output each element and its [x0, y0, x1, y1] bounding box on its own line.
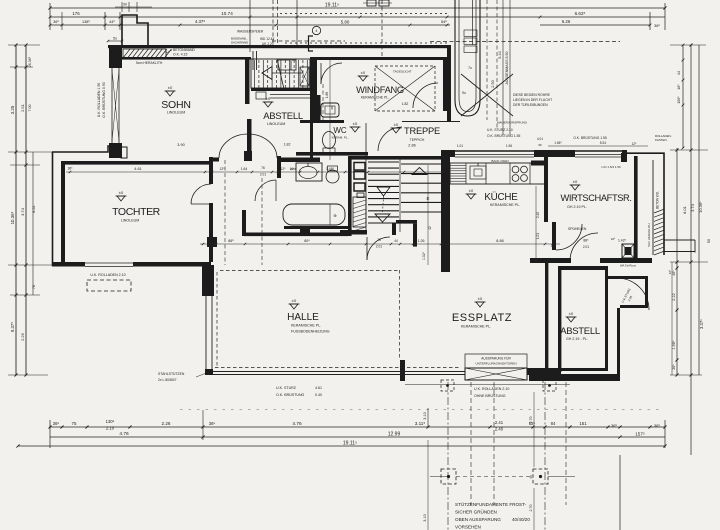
door arc abstell-top	[321, 63, 342, 84]
svg-text:157⁵: 157⁵	[635, 432, 645, 437]
dim verticals aussenmass	[502, 0, 504, 135]
wall windfang top	[313, 57, 448, 60]
svg-text:12⁵: 12⁵	[281, 167, 287, 171]
svg-text:36⁵: 36⁵	[611, 423, 617, 428]
svg-text:SOHN: SOHN	[161, 99, 191, 111]
svg-text:KERAMISCHE PL.: KERAMISCHE PL.	[291, 324, 321, 328]
svg-text:5.44: 5.44	[498, 51, 502, 58]
wall tochter top outer corner	[52, 146, 116, 152]
svg-text:KERAMISCHE PL.: KERAMISCHE PL.	[490, 203, 520, 207]
svg-text:1.26: 1.26	[418, 239, 425, 243]
svg-text:LIEGEN IN DER FLUCHT: LIEGEN IN DER FLUCHT	[513, 98, 552, 102]
right dimension line b	[682, 45, 684, 148]
window sohn left	[111, 68, 113, 143]
svg-text:2.51: 2.51	[20, 103, 25, 112]
svg-text:4: 4	[316, 29, 318, 33]
svg-text:5.80: 5.80	[341, 20, 350, 25]
svg-text:46⁵: 46⁵	[668, 269, 672, 274]
left dimension line inner	[25, 45, 27, 375]
wall abstell bottom band	[529, 374, 620, 381]
svg-text:±0: ±0	[353, 121, 358, 126]
svg-text:±0: ±0	[469, 188, 474, 193]
wall essplatz right band	[545, 262, 548, 376]
svg-text:AUSSENMASS 8.50: AUSSENMASS 8.50	[505, 52, 509, 85]
svg-text:40/40/20: 40/40/20	[512, 517, 530, 522]
svg-text:TREPPE: TREPPE	[404, 126, 440, 136]
radiator abstell-top	[300, 67, 309, 86]
svg-text:HALLE: HALLE	[287, 312, 319, 323]
svg-text:U.K. STURZ 2.10: U.K. STURZ 2.10	[487, 128, 513, 132]
svg-text:4.61: 4.61	[134, 167, 141, 171]
dashed gallery line halle	[220, 270, 399, 272]
wall kueche/wirtschaft divider	[544, 150, 548, 222]
svg-text:19.11⁵: 19.11⁵	[325, 3, 339, 9]
understair arrow	[272, 72, 303, 74]
svg-text:4.76: 4.76	[119, 431, 129, 437]
svg-text:KERAMISCHE PL.: KERAMISCHE PL.	[461, 325, 491, 329]
svg-text:76: 76	[261, 166, 265, 170]
svg-text:2x L 80/80/7: 2x L 80/80/7	[158, 378, 177, 382]
svg-text:3.90: 3.90	[177, 143, 184, 147]
vertical dim x653 essplatz right	[671, 262, 673, 375]
svg-text:10.36⁵: 10.36⁵	[10, 211, 15, 224]
svg-text:2.86: 2.86	[408, 144, 415, 148]
svg-text:3.74: 3.74	[20, 207, 25, 216]
wall tochter right upper	[209, 157, 213, 184]
door leaf essplatz-wirtschaft	[552, 222, 556, 250]
svg-text:76: 76	[32, 285, 36, 289]
svg-text:2.41: 2.41	[495, 420, 504, 425]
entrance tongue outer	[455, 0, 480, 116]
bad wc bowl	[326, 170, 339, 183]
svg-text:±0: ±0	[168, 85, 173, 90]
svg-text:AUSSPARUNG FÜR: AUSSPARUNG FÜR	[481, 357, 511, 361]
svg-text:151: 151	[579, 421, 587, 426]
top center vent boxes	[367, 0, 376, 6]
svg-text:±0: ±0	[478, 296, 483, 301]
svg-text:1.88: 1.88	[325, 92, 329, 98]
svg-text:0.40: 0.40	[315, 393, 322, 397]
svg-text:U.D 1.5/4 1.56: U.D 1.5/4 1.56	[601, 165, 621, 169]
svg-text:LINOLEUM: LINOLEUM	[167, 111, 185, 115]
bottom extension verticals	[202, 410, 204, 440]
svg-text:8.86: 8.86	[496, 239, 503, 243]
kitchen hood marks	[531, 161, 545, 166]
svg-text:7.00: 7.00	[28, 105, 32, 112]
kitchen stove	[512, 166, 519, 173]
wall corridor y120	[300, 120, 344, 123]
svg-text:100⁵: 100⁵	[677, 96, 681, 104]
svg-text:80⁴: 80⁴	[304, 239, 310, 243]
door arc hall	[367, 237, 390, 260]
svg-text:OHNE BRÜSTUNG: OHNE BRÜSTUNG	[474, 394, 506, 398]
wall sohn top	[122, 57, 251, 60]
right tick extensions	[670, 44, 706, 46]
kitchen fridge hatch	[450, 165, 466, 167]
foundation square a	[441, 469, 456, 484]
svg-text:WD 12.43: WD 12.43	[260, 37, 274, 41]
svg-text:5cm HERAKLITH: 5cm HERAKLITH	[647, 223, 651, 246]
hatched pillar right	[654, 209, 665, 213]
svg-text:2.01: 2.01	[260, 173, 266, 177]
wall stairs bottom + door jambs	[340, 230, 367, 235]
foundation dim line y384	[405, 384, 570, 386]
svg-text:16⁶: 16⁶	[290, 167, 296, 171]
left dimension line outer 10.36	[15, 45, 17, 375]
windfang skylight dashed box	[375, 66, 435, 111]
wall bad right	[348, 156, 352, 236]
svg-text:MAUERVORSPRUNG: MAUERVORSPRUNG	[497, 121, 528, 125]
svg-text:2.50: 2.50	[491, 80, 495, 87]
svg-text:44: 44	[394, 239, 398, 243]
svg-text:8.61: 8.61	[32, 205, 36, 212]
svg-text:5o: 5o	[113, 37, 117, 41]
wall entrance vertical	[447, 45, 451, 121]
svg-text:54⁵: 54⁵	[441, 19, 447, 24]
svg-text:10.74: 10.74	[221, 11, 233, 16]
wall sohn left window stubs	[109, 45, 122, 68]
staircase treppe left flight	[368, 161, 399, 163]
svg-text:WINDFANG: WINDFANG	[356, 85, 404, 95]
wall tochter top	[63, 161, 211, 165]
svg-text:36⁶: 36⁶	[53, 20, 59, 24]
svg-text:GH 2.19 PL.: GH 2.19 PL.	[567, 205, 587, 209]
wall below understairs	[251, 88, 313, 91]
svg-text:75: 75	[72, 421, 77, 426]
kitchen sink	[470, 166, 486, 179]
svg-text:3.10: 3.10	[423, 514, 427, 521]
svg-text:1.82: 1.82	[284, 143, 291, 147]
foundation vertical dim x534 low	[533, 392, 535, 467]
svg-text:±0: ±0	[394, 122, 399, 127]
foundation dashed c	[470, 382, 472, 505]
wall tochter right lower	[209, 203, 213, 262]
wc washbasin	[321, 103, 339, 117]
svg-text:1.01: 1.01	[536, 233, 540, 239]
svg-text:DACHRINNE: DACHRINNE	[231, 41, 248, 45]
wall bad left stub	[277, 156, 281, 178]
top construction verticals	[249, 0, 251, 52]
wardrobe below understairs	[256, 92, 266, 99]
svg-text:1.56⁵: 1.56⁵	[554, 141, 562, 145]
door arc wirtschaft bottom	[570, 233, 598, 261]
door arc sohn double	[219, 134, 277, 158]
svg-text:1.56: 1.56	[506, 144, 512, 148]
svg-text:36⁵: 36⁵	[209, 421, 216, 426]
top dimension line row2	[50, 16, 450, 18]
bad bathtub	[283, 204, 345, 225]
svg-text:36⁵: 36⁵	[654, 24, 660, 28]
dim texts wirtschaft window top	[548, 145, 648, 147]
wall kueche top	[447, 150, 455, 157]
svg-text:19.11⁵: 19.11⁵	[343, 441, 357, 447]
svg-text:44: 44	[677, 71, 681, 75]
svg-text:FUSSBODENHEIZUNG: FUSSBODENHEIZUNG	[291, 330, 330, 334]
svg-text:4.76: 4.76	[292, 421, 302, 427]
svg-text:WIRTSCHAFTSR.: WIRTSCHAFTSR.	[560, 193, 631, 203]
leader betonwand	[166, 50, 172, 53]
svg-text:3.10: 3.10	[423, 412, 427, 419]
top chimney outline	[122, 15, 148, 45]
svg-text:130⁵: 130⁵	[106, 419, 115, 424]
svg-text:5cm HERAKLITH: 5cm HERAKLITH	[136, 61, 163, 65]
svg-text:1.82: 1.82	[402, 102, 409, 106]
svg-text:⊕: ⊕	[333, 213, 336, 218]
wall windfang right	[443, 57, 451, 111]
wall halle left column	[202, 265, 214, 296]
foundation axis dashdot b	[544, 382, 546, 530]
window wirtschaft top	[575, 154, 622, 156]
window kueche top	[455, 154, 534, 156]
svg-text:88⁵: 88⁵	[583, 239, 589, 243]
svg-text:36⁵: 36⁵	[68, 167, 74, 171]
svg-text:46⁵: 46⁵	[672, 270, 676, 276]
svg-text:12⁵: 12⁵	[632, 142, 638, 146]
wall abstell-bottom niche	[605, 266, 608, 278]
understair cellar stairs treads	[251, 59, 310, 88]
svg-text:2.70: 2.70	[529, 505, 533, 512]
svg-text:4.01: 4.01	[537, 137, 543, 141]
svg-text:50: 50	[707, 239, 711, 243]
entrance steps	[464, 30, 477, 37]
svg-text:±0: ±0	[266, 96, 271, 101]
corridor dim line y244	[200, 243, 560, 245]
wall essplatz bottom pillar	[400, 360, 405, 381]
svg-text:44⁶: 44⁶	[109, 20, 115, 24]
svg-text:2.26: 2.26	[20, 332, 25, 341]
wall wirtschaft top	[622, 150, 627, 157]
svg-text:U.K. ROLLÄDEN 2.10: U.K. ROLLÄDEN 2.10	[474, 387, 509, 391]
svg-text:OBEN AUSSPARUNG: OBEN AUSSPARUNG	[455, 517, 501, 522]
foundation vertical dim x428 low	[427, 440, 429, 530]
door arc essplatz-wirtschaft	[556, 224, 582, 250]
cellar stair stubs top	[252, 51, 254, 70]
washing machine	[622, 244, 634, 258]
wall exterior top band	[108, 45, 451, 48]
svg-text:10.36⁵: 10.36⁵	[698, 201, 703, 213]
staircase treppe right flight	[401, 163, 441, 165]
svg-text:4.37⁶: 4.37⁶	[195, 19, 206, 24]
wall abstell-bottom inner right	[605, 276, 608, 368]
left tick extensions	[8, 44, 40, 46]
svg-text:WC: WC	[333, 126, 347, 135]
svg-text:WA Tai-Roon: WA Tai-Roon	[620, 264, 637, 268]
door arc windfang east	[413, 83, 438, 108]
svg-text:26,36⁵: 26,36⁵	[28, 56, 32, 67]
right exterior step ledge	[664, 239, 695, 241]
svg-text:6.62⁵: 6.62⁵	[575, 11, 586, 16]
svg-text:3.25: 3.25	[10, 105, 15, 114]
top dimension line row3	[50, 24, 450, 26]
wall hall top	[244, 233, 348, 237]
svg-text:1.96⁵: 1.96⁵	[672, 340, 676, 349]
svg-text:ABSTELL: ABSTELL	[263, 111, 303, 122]
svg-text:1.64: 1.64	[241, 167, 248, 171]
foundation square b	[533, 469, 548, 484]
svg-text:LINOLEUM: LINOLEUM	[121, 219, 139, 223]
svg-text:BACK OFEN: BACK OFEN	[491, 159, 508, 163]
svg-text:12⁵: 12⁵	[220, 167, 226, 171]
bottom dimension chain row1	[50, 426, 665, 428]
stair arrow up	[412, 168, 427, 175]
svg-text:UNTERFLURKONVEKTOREN: UNTERFLURKONVEKTOREN	[475, 362, 516, 366]
foundation axis dashdot a	[447, 382, 449, 530]
stair arrow down1	[377, 187, 390, 196]
wall abstell-top right	[310, 57, 313, 160]
shaft hatched	[353, 197, 366, 227]
svg-text:37⁵: 37⁵	[551, 244, 557, 248]
wall tochter bottom	[52, 262, 85, 267]
left dimension line third	[32, 152, 34, 295]
svg-text:KERAM. PL.: KERAM. PL.	[332, 136, 349, 140]
svg-text:STAHLSTÜTZEN: STAHLSTÜTZEN	[158, 372, 185, 376]
svg-text:±0: ±0	[361, 70, 366, 75]
svg-text:3.37⁵: 3.37⁵	[699, 319, 704, 329]
svg-text:138⁶: 138⁶	[82, 20, 90, 24]
svg-text:2.26: 2.26	[162, 421, 171, 426]
entrance tongue inner	[459, 0, 476, 112]
column marker top b	[543, 380, 556, 391]
glass halle left	[205, 295, 207, 374]
door arc tochter	[191, 184, 211, 204]
svg-text:TOCHTER: TOCHTER	[112, 206, 161, 218]
svg-text:STÜTZENFUNDAMENTE FROST-: STÜTZENFUNDAMENTE FROST-	[455, 501, 527, 507]
svg-text:O.K. BRÜSTUNG 1.55: O.K. BRÜSTUNG 1.55	[487, 134, 521, 138]
door arc abstell-bottom	[617, 278, 649, 310]
svg-text:36⁵: 36⁵	[53, 421, 60, 426]
wall bad bottom inner	[284, 226, 348, 229]
svg-text:3.74: 3.74	[690, 203, 695, 212]
foundation tick line y477	[430, 476, 448, 478]
svg-text:42: 42	[428, 226, 432, 230]
wall windfang left	[313, 60, 317, 120]
dashed reference verticals corridor	[224, 160, 226, 265]
hatched concrete band top-left	[123, 49, 166, 58]
svg-text:84: 84	[551, 421, 556, 426]
svg-text:4o: 4o	[529, 475, 533, 479]
svg-text:TAGESLICHT: TAGESLICHT	[393, 70, 412, 74]
window tochter bottom	[85, 262, 133, 264]
svg-text:±0: ±0	[573, 179, 578, 184]
svg-text:44: 44	[443, 240, 447, 244]
svg-text:KÜCHE: KÜCHE	[484, 192, 518, 203]
svg-text:DER TÜRLEIBUNGEN: DER TÜRLEIBUNGEN	[513, 103, 548, 107]
svg-text:36⁵: 36⁵	[672, 364, 676, 370]
vertical dim x536 kueche	[535, 186, 537, 262]
svg-text:5.51: 5.51	[600, 141, 607, 145]
svg-text:VORSEHEN: VORSEHEN	[455, 525, 481, 530]
svg-text:1.46⁵: 1.46⁵	[326, 167, 335, 171]
wall sohn right	[245, 58, 250, 104]
shaft boxes right of bad	[354, 163, 365, 171]
stair arrow down2	[375, 214, 390, 222]
svg-text:3.11⁵: 3.11⁵	[415, 421, 426, 426]
svg-text:2.70: 2.70	[529, 417, 533, 424]
svg-text:16⁵: 16⁵	[677, 84, 681, 90]
svg-text:UK 2.20: UK 2.20	[262, 42, 274, 46]
svg-text:TEPPICH: TEPPICH	[410, 138, 425, 142]
wall tochter left	[52, 152, 54, 266]
svg-text:±0: ±0	[119, 190, 124, 195]
svg-text:6.26: 6.26	[562, 19, 571, 24]
window essplatz x-panel	[465, 368, 527, 380]
door arc treppe	[378, 127, 402, 151]
svg-text:U.K. ROLLADEN 1.90: U.K. ROLLADEN 1.90	[97, 83, 101, 117]
svg-text:U.K. ROLLADEN 2.10: U.K. ROLLADEN 2.10	[90, 273, 125, 277]
svg-text:O.K. BRÜSTUNG 0.90: O.K. BRÜSTUNG 0.90	[102, 82, 106, 117]
svg-text:2.01: 2.01	[583, 245, 589, 249]
corridor dim line y172	[66, 171, 445, 173]
wall top tick texture row	[280, 13, 282, 15]
svg-text:176: 176	[72, 11, 80, 16]
svg-text:KASTEN: KASTEN	[655, 138, 667, 142]
svg-text:±0: ±0	[569, 311, 574, 316]
svg-text:O.K. BRÜSTUNG 1.55: O.K. BRÜSTUNG 1.55	[573, 136, 607, 140]
door arc bad	[255, 180, 276, 201]
entrance canopy X	[461, 74, 513, 116]
top dimension line overall 19.11	[50, 7, 665, 9]
svg-text:90: 90	[330, 106, 334, 110]
svg-text:1.01: 1.01	[457, 144, 463, 148]
svg-text:36⁵: 36⁵	[654, 423, 660, 428]
wall abstell-bottom top	[558, 266, 605, 270]
bad washbasin	[296, 163, 322, 181]
svg-text:SICHER GRÜNDEN: SICHER GRÜNDEN	[455, 509, 497, 515]
svg-text:9o: 9o	[462, 91, 466, 95]
wall stairs top	[351, 156, 443, 160]
right dimension line d	[698, 45, 700, 262]
foundation vertical solid x620	[619, 455, 621, 530]
aussparung box	[465, 354, 527, 368]
entrance bracket mark	[309, 36, 314, 51]
svg-text:2.40: 2.40	[495, 427, 504, 432]
svg-text:ABSTELL: ABSTELL	[560, 326, 600, 337]
wall wirtschaft bottom	[530, 258, 571, 263]
wc toilet	[323, 132, 336, 149]
shaft wc left	[317, 95, 321, 120]
wall stairs/kueche thick	[441, 150, 450, 272]
svg-text:90: 90	[123, 3, 127, 7]
svg-text:±0: ±0	[292, 298, 297, 303]
column marker top a	[441, 380, 454, 391]
wall wc/bad divider	[296, 152, 368, 156]
svg-text:16⁵: 16⁵	[611, 237, 616, 241]
speckle row	[180, 409, 660, 411]
svg-text:2.40: 2.40	[536, 212, 540, 218]
svg-text:86⁵: 86⁵	[228, 239, 234, 243]
svg-text:O.K. 4.15: O.K. 4.15	[173, 53, 187, 57]
svg-text:96: 96	[538, 143, 542, 147]
svg-text:9.37⁵: 9.37⁵	[10, 322, 15, 333]
kitchen counter	[450, 163, 547, 184]
entrance dashed tie	[272, 40, 345, 42]
svg-text:LINOLEUM: LINOLEUM	[267, 122, 285, 126]
vertical dim x428	[427, 165, 429, 265]
svg-text:SPÜHELEN: SPÜHELEN	[568, 227, 587, 231]
glass front halle/essplatz	[205, 371, 465, 373]
bottom dimension row2	[50, 436, 620, 438]
svg-text:44: 44	[207, 239, 211, 243]
wall top right outer corner	[625, 153, 664, 255]
wall right inner	[634, 156, 638, 260]
svg-text:BETON WD.: BETON WD.	[656, 191, 660, 209]
svg-text:KERAMISCHE PL.: KERAMISCHE PL.	[361, 96, 390, 100]
svg-text:O.K. BRÜSTUNG: O.K. BRÜSTUNG	[276, 393, 305, 397]
svg-text:12.99: 12.99	[388, 432, 401, 438]
vertical dim x330 wc	[329, 57, 331, 160]
dashed halle vert left	[216, 272, 218, 367]
svg-text:2.10: 2.10	[106, 426, 115, 431]
